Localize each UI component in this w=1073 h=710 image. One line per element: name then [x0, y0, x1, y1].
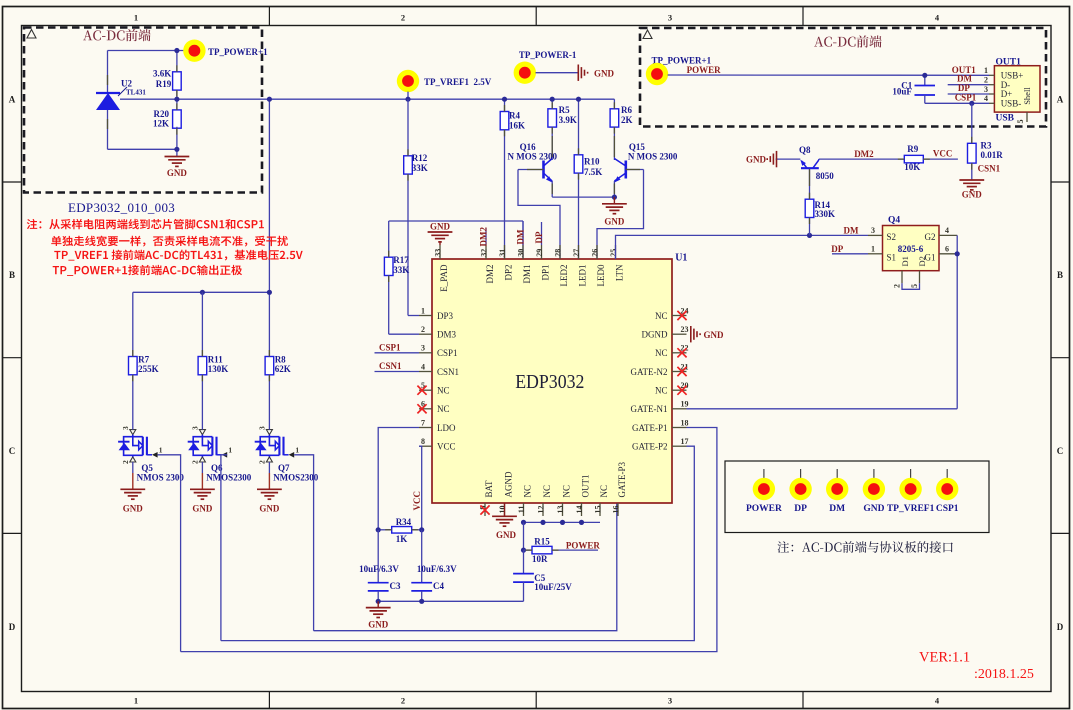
svg-text:25: 25 [609, 249, 618, 257]
svg-text:NC: NC [655, 311, 668, 321]
svg-text:R6: R6 [621, 105, 632, 115]
svg-text:C: C [1057, 446, 1064, 456]
svg-text:DP: DP [831, 244, 843, 254]
svg-text:Shell: Shell [1022, 87, 1032, 105]
svg-text:GATE-P3: GATE-P3 [617, 462, 627, 498]
svg-text:3: 3 [421, 344, 425, 353]
svg-text:12K: 12K [153, 119, 169, 129]
svg-text:LED2: LED2 [559, 265, 569, 287]
svg-text:DM3: DM3 [437, 330, 457, 340]
svg-text:1: 1 [134, 696, 138, 706]
svg-text:BAT: BAT [484, 480, 494, 498]
svg-text:EDP3032_010_003: EDP3032_010_003 [68, 200, 175, 215]
svg-text:R15: R15 [534, 537, 550, 547]
svg-text:10uF/25V: 10uF/25V [534, 582, 572, 592]
svg-text:GND: GND [259, 504, 280, 514]
svg-text:A: A [9, 95, 16, 105]
svg-text:NC: NC [561, 485, 571, 498]
svg-text:16K: 16K [509, 121, 525, 131]
svg-text:8050: 8050 [816, 171, 835, 181]
svg-text:C3: C3 [390, 581, 401, 591]
svg-text:NMOS2300: NMOS2300 [206, 473, 252, 483]
svg-text:TL431: TL431 [126, 89, 146, 97]
svg-text:GND: GND [496, 530, 517, 540]
svg-text:Q15: Q15 [629, 142, 646, 152]
svg-text:18: 18 [681, 418, 689, 427]
svg-text:DM2: DM2 [478, 227, 488, 247]
svg-text:NC: NC [655, 386, 668, 396]
svg-text:GND: GND [962, 189, 983, 199]
svg-text:CSN1: CSN1 [437, 367, 459, 377]
svg-text:1: 1 [871, 244, 875, 253]
svg-text:DP2: DP2 [503, 265, 513, 281]
svg-text:2: 2 [421, 325, 425, 334]
svg-text:D1: D1 [900, 256, 910, 266]
svg-text:USB-: USB- [1001, 99, 1022, 109]
svg-text:VCC: VCC [933, 149, 953, 159]
svg-text:5: 5 [1016, 120, 1025, 124]
svg-text:DM2: DM2 [485, 265, 495, 284]
svg-text:15: 15 [593, 506, 602, 514]
svg-text:LTN: LTN [614, 264, 624, 281]
svg-text:2: 2 [401, 13, 405, 23]
svg-text:1: 1 [159, 445, 163, 454]
svg-text:NC: NC [437, 404, 450, 414]
svg-text:GND: GND [746, 154, 767, 164]
svg-text:CSP1: CSP1 [437, 348, 458, 358]
svg-text:VCC: VCC [412, 491, 422, 511]
svg-text:255K: 255K [138, 364, 159, 374]
svg-text:27: 27 [572, 249, 581, 257]
svg-text:3: 3 [191, 426, 200, 430]
svg-text:NC: NC [437, 386, 450, 396]
svg-text:DP: DP [958, 83, 970, 93]
svg-text:6: 6 [945, 244, 949, 253]
svg-text:26: 26 [590, 249, 599, 257]
svg-text:N MOS 2300: N MOS 2300 [628, 152, 678, 162]
svg-text:33: 33 [433, 249, 442, 257]
svg-text:DP3: DP3 [437, 311, 454, 321]
svg-text:130K: 130K [208, 364, 229, 374]
svg-text:12: 12 [536, 506, 545, 514]
svg-text:32: 32 [479, 249, 488, 257]
svg-text:GATE-P1: GATE-P1 [632, 423, 668, 433]
svg-text:1K: 1K [396, 534, 408, 544]
svg-text:330K: 330K [815, 209, 836, 219]
svg-text:R34: R34 [396, 517, 412, 527]
svg-text:LED0: LED0 [596, 264, 606, 286]
svg-text:U1: U1 [675, 253, 687, 264]
svg-text:3.6K: 3.6K [153, 69, 171, 79]
svg-text:11: 11 [517, 506, 526, 514]
svg-text:NC: NC [599, 485, 609, 498]
svg-text:1: 1 [984, 66, 988, 75]
svg-text::2018.1.25: :2018.1.25 [974, 667, 1034, 682]
svg-text:31: 31 [498, 249, 507, 257]
svg-text:1: 1 [421, 306, 425, 315]
svg-text:10uF/6.3V: 10uF/6.3V [417, 564, 457, 574]
svg-text:14: 14 [575, 506, 584, 514]
svg-text:4: 4 [421, 362, 425, 371]
svg-text:2: 2 [401, 696, 405, 706]
svg-text:OUT1: OUT1 [580, 475, 590, 498]
svg-text:DM: DM [515, 229, 525, 244]
svg-text:VER:1.1: VER:1.1 [919, 650, 970, 666]
svg-text:3: 3 [668, 696, 672, 706]
svg-text:DM1: DM1 [522, 265, 532, 284]
svg-text:GND: GND [863, 504, 884, 514]
svg-text:R20: R20 [154, 109, 170, 119]
svg-text:17: 17 [681, 437, 689, 446]
svg-text:0.01R: 0.01R [981, 150, 1004, 160]
svg-text:C: C [9, 446, 16, 456]
svg-text:30: 30 [516, 249, 525, 257]
svg-text:G2: G2 [925, 232, 936, 242]
svg-text:R7: R7 [138, 355, 149, 365]
svg-text:C4: C4 [433, 581, 444, 591]
svg-text:TP_POWER-1: TP_POWER-1 [519, 50, 577, 60]
svg-text:28: 28 [553, 249, 562, 257]
svg-text:19: 19 [681, 400, 689, 409]
svg-text:DGND: DGND [642, 330, 668, 340]
svg-text:10: 10 [498, 506, 507, 514]
svg-text:2: 2 [121, 460, 130, 464]
svg-text:2: 2 [191, 460, 200, 464]
svg-text:DP1: DP1 [540, 265, 550, 281]
svg-text:TP_VREF1 2.5V: TP_VREF1 2.5V [424, 77, 492, 87]
svg-text:1: 1 [134, 13, 138, 23]
svg-text:23: 23 [681, 325, 689, 334]
svg-text:N MOS 2300: N MOS 2300 [508, 152, 558, 162]
svg-text:E_PAD: E_PAD [439, 264, 449, 292]
svg-text:GND: GND [167, 168, 188, 178]
svg-text:POWER: POWER [746, 504, 782, 514]
svg-text:4: 4 [984, 94, 988, 103]
svg-text:2: 2 [258, 460, 267, 464]
svg-text:VCC: VCC [437, 442, 456, 452]
svg-text:NC: NC [542, 485, 552, 498]
svg-text:10uF/6.3V: 10uF/6.3V [359, 564, 399, 574]
svg-text:B: B [1057, 270, 1063, 280]
svg-text:USB: USB [996, 114, 1015, 124]
svg-text:R3: R3 [981, 140, 992, 150]
svg-text:3: 3 [871, 226, 875, 235]
svg-text:R11: R11 [208, 355, 224, 365]
svg-text:R17: R17 [393, 255, 409, 265]
svg-text:GND: GND [604, 217, 625, 227]
svg-text:NMOS2300: NMOS2300 [273, 473, 319, 483]
svg-text:CSP1: CSP1 [936, 504, 959, 514]
svg-text:1: 1 [228, 445, 232, 454]
svg-text:EDP3032: EDP3032 [515, 371, 584, 393]
svg-text:10R: 10R [532, 554, 548, 564]
svg-text:3.9K: 3.9K [559, 115, 577, 125]
svg-text:Q16: Q16 [520, 142, 537, 152]
svg-text:B: B [9, 270, 15, 280]
svg-text:CSP1: CSP1 [955, 92, 977, 102]
svg-text:7.5K: 7.5K [584, 167, 602, 177]
svg-text:GND: GND [430, 222, 451, 232]
svg-text:S1: S1 [887, 253, 897, 263]
svg-text:13: 13 [556, 506, 565, 514]
svg-text:1: 1 [295, 445, 299, 454]
svg-text:TP_VREF1: TP_VREF1 [887, 504, 935, 514]
svg-text:R9: R9 [907, 144, 918, 154]
svg-text:R4: R4 [509, 111, 520, 121]
svg-text:POWER: POWER [687, 65, 722, 75]
svg-text:GATE-N1: GATE-N1 [631, 404, 668, 414]
svg-text:R8: R8 [275, 355, 286, 365]
svg-text:AGND: AGND [503, 471, 513, 497]
svg-text:10K: 10K [904, 162, 920, 172]
svg-text:GATE-P2: GATE-P2 [632, 442, 668, 452]
svg-text:S2: S2 [887, 232, 897, 242]
svg-text:CSN1: CSN1 [978, 163, 1001, 173]
svg-text:GATE-N2: GATE-N2 [631, 367, 668, 377]
svg-text:29: 29 [535, 249, 544, 257]
svg-text:33K: 33K [412, 163, 428, 173]
svg-text:TP_POWER+1: TP_POWER+1 [208, 47, 268, 57]
svg-text:2: 2 [893, 284, 902, 288]
svg-text:POWER: POWER [566, 540, 601, 550]
svg-text:8205-6: 8205-6 [898, 244, 924, 254]
svg-text:10uF: 10uF [892, 87, 912, 97]
svg-text:Q8: Q8 [799, 145, 811, 155]
svg-text:GND: GND [594, 69, 615, 79]
svg-text:LDO: LDO [437, 423, 456, 433]
svg-text:LED1: LED1 [577, 265, 587, 287]
svg-text:Q4: Q4 [888, 215, 900, 225]
svg-text:7: 7 [421, 418, 425, 427]
svg-text:3: 3 [668, 13, 672, 23]
svg-text:GND: GND [192, 504, 213, 514]
svg-text:CSP1: CSP1 [379, 342, 401, 352]
svg-text:A: A [1057, 95, 1064, 105]
svg-text:D: D [1057, 622, 1064, 632]
svg-text:NC: NC [655, 348, 668, 358]
svg-text:NMOS 2300: NMOS 2300 [137, 473, 185, 483]
svg-text:3: 3 [258, 426, 267, 430]
svg-text:33K: 33K [393, 265, 409, 275]
svg-text:GND: GND [368, 620, 389, 630]
svg-text:DM: DM [844, 225, 859, 235]
svg-text:DM2: DM2 [854, 149, 874, 159]
svg-text:R19: R19 [156, 79, 172, 89]
svg-text:NC: NC [522, 485, 532, 498]
svg-text:4: 4 [945, 226, 949, 235]
svg-text:3: 3 [984, 85, 988, 94]
svg-text:62K: 62K [275, 364, 291, 374]
svg-text:R12: R12 [412, 153, 428, 163]
svg-text:8: 8 [421, 437, 425, 446]
svg-text:DM: DM [829, 504, 845, 514]
svg-text:2K: 2K [621, 115, 633, 125]
svg-text:GND: GND [123, 504, 144, 514]
svg-text:R5: R5 [559, 105, 570, 115]
svg-text:2: 2 [984, 76, 988, 85]
svg-text:GND: GND [704, 330, 725, 340]
svg-text:R10: R10 [584, 157, 600, 167]
svg-text:DP: DP [794, 504, 807, 514]
svg-text:CSN1: CSN1 [379, 361, 402, 371]
svg-text:3: 3 [121, 426, 130, 430]
svg-text:DP: DP [534, 231, 544, 243]
svg-text:5: 5 [910, 284, 919, 288]
svg-text:16: 16 [611, 506, 620, 514]
svg-text:D: D [9, 622, 16, 632]
svg-text:D2: D2 [917, 256, 927, 266]
